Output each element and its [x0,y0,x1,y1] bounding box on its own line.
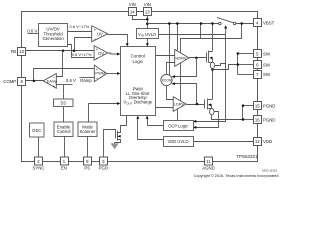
block VDD UVLO [164,137,194,147]
node arrow OV into control logic [117,53,120,56]
svg-text:AGND: AGND [202,166,214,171]
wire SW node to SW pins [213,65,238,70]
wire VIN rail [148,23,219,25]
wire control logic to LDRV input [156,107,174,109]
svg-text:VDD: VDD [263,139,272,144]
svg-text:0.6 V+17%: 0.6 V+17% [72,52,92,57]
pin 8 PS [84,157,92,171]
wire PGND stub pin 15 [243,105,254,107]
pin 6 SW [254,61,271,69]
transistor low side FET [205,99,213,110]
pin 9 COMP [3,78,25,86]
node arrow UV into control logic [126,43,129,46]
wire rail branch to high side FET drain [212,24,214,52]
node label TPS53321 [236,154,258,159]
pin 13 VIN [144,2,152,16]
svg-text:UV: UV [97,32,103,37]
wire SW stub pin 5 [238,53,254,55]
svg-text:+: + [94,27,97,32]
svg-text:11: 11 [206,159,211,164]
wire mode scanner branch [88,104,90,123]
wire HDRV feedback to XCON [175,58,197,77]
wire SW pin bridge [237,54,239,75]
svg-text:FB: FB [11,49,17,54]
pin 5 SW [254,50,271,58]
svg-text:12: 12 [255,139,260,144]
block VIN UVLO [137,29,159,39]
node arrow OCP into control logic bottom [146,116,149,119]
node label 0.6 V at EAmp [66,78,76,83]
svg-text:Ramp: Ramp [80,78,92,83]
wire SS to Enable Control [63,107,65,123]
op-amp EAmp error amplifier [43,74,57,90]
ground PGD FET source [111,143,119,150]
switch BST internal switch [217,18,236,25]
comparator OV [94,46,108,61]
svg-text:+: + [96,47,99,52]
wire VIN pin 14 drop [133,16,148,20]
wire VDD UVLO output to control logic [138,119,164,140]
node arrow BST switch control [224,25,227,28]
wire LDRV low rail to OCP [177,109,179,121]
svg-text:Generation: Generation [42,36,64,41]
wire SW stub pin 6 [238,64,254,66]
wire OCP Logic output to control logic [148,119,164,126]
wire LDRV output to low side gate [187,104,205,106]
node 0.6V reference input label [27,28,37,33]
node arrow VDD UVLO into control logic bottom [136,116,139,119]
svg-text:−: − [53,74,56,79]
node arrow PWM into control logic [117,72,120,75]
pin 10 FB [11,48,26,56]
svg-text:SW: SW [263,51,271,56]
node arrow into control logic left [117,102,120,105]
svg-text:0.6 V: 0.6 V [27,28,37,33]
svg-text:15: 15 [255,103,260,108]
driver HDRV [175,49,189,66]
node rail junction BST return [200,22,203,25]
wire PGD pin to gate [104,130,116,157]
comparator PWM [94,65,107,81]
node VIN junction a [146,18,149,21]
wire UV output to control logic [108,35,128,44]
wire VBST to HDRV high rail [181,24,242,53]
block OCP Logic [164,121,194,131]
circle XCON anti cross conduction [161,74,172,85]
wire rail branch to BST return line [200,24,202,39]
current sense low side [210,108,214,114]
svg-text:COMP: COMP [3,79,16,84]
svg-text:TPS53321: TPS53321 [236,154,258,159]
wire Enable Control to EN pin [64,137,66,158]
wire PGND stub pin 16 [243,119,254,121]
svg-text:OSC: OSC [32,128,41,133]
comparator UV [92,26,108,42]
svg-text:PGND: PGND [263,103,275,108]
node arrow HDRV feedback into XCON [172,75,175,78]
block Enable Control [54,122,73,137]
svg-text:VBST: VBST [263,21,275,26]
node PGND junction a [242,104,245,107]
svg-text:OCP Logic: OCP Logic [168,123,188,128]
svg-text:10: 10 [19,49,24,54]
wire VIN UVLO output to control logic [147,39,149,44]
pin 15 PGND [254,102,276,110]
svg-text:−: − [96,76,99,81]
svg-text:XCON: XCON [162,78,172,82]
node rail junction HDRV supply [176,22,179,25]
svg-text:14: 14 [130,9,135,14]
wire control logic to PGD pulldown drain [118,116,127,133]
wire XCON to LDRV input [167,86,174,100]
wire OSC to SYNC pin [38,137,40,158]
wire Ramp stub to PWM minus input [80,77,95,79]
svg-text:SW: SW [263,72,271,77]
node label UDG [262,169,277,173]
wire rail branch to HDRV supply [177,24,179,51]
pin 3 PGD [99,157,108,171]
svg-text:LDRV: LDRV [174,102,185,107]
node SW bridge junction b [237,63,240,66]
pin 1 EN [61,157,69,171]
svg-text:SW: SW [263,62,271,67]
block SS soft start [54,99,74,107]
wire VIN UVLO to BST switch control [159,35,226,122]
block UV/OV Threshold Generation [39,24,68,47]
node COMP junction [33,80,36,83]
wire SW stub pin 7 [238,74,254,76]
pin 12 VDD [254,138,273,146]
svg-text:Scanner: Scanner [79,129,96,134]
svg-text:0.6 V−17%: 0.6 V−17% [70,24,90,29]
node arrow VIN UVLO into control logic [146,43,149,46]
svg-text:VDD UVLO: VDD UVLO [168,139,189,144]
wire low side sense tap to OCP [196,112,219,128]
wire 0.6V-17% threshold to UV plus input [68,31,92,33]
svg-text:SYNC: SYNC [33,166,45,171]
pin 14 VIN [129,2,137,16]
wire XCON to HDRV low input [167,63,175,75]
wire EAmp plus input 0.6V stub [57,84,73,86]
svg-text:16: 16 [255,117,260,122]
wire SS and Mode Scanner to control logic [89,103,118,105]
wire FB to EAmp inverting input [57,51,63,77]
svg-text:−: − [94,37,97,42]
svg-text:PS: PS [84,166,90,171]
svg-text:VOUT Discharge: VOUT Discharge [123,100,152,106]
node FB junction to UV comparator [73,50,76,53]
wire PWM comparator output to control logic [107,73,118,75]
node label Ramp [80,78,92,83]
svg-text:EN: EN [61,166,67,171]
wire switch to VBST pin [236,23,254,25]
pin 2 SYNC [33,157,45,171]
node VBST junction [240,22,243,25]
transistor high side FET [207,51,213,63]
node SW bridge junction a [237,52,240,55]
svg-text:−: − [96,55,99,60]
svg-text:UDG-11201: UDG-11201 [262,169,277,173]
node SW junction [211,68,214,71]
svg-text:OV: OV [98,51,104,56]
wire OV output to control logic [108,53,118,54]
svg-text:Control: Control [57,129,71,134]
wire HDRV low rail to LDRV high rail [180,63,182,101]
block Mode Scanner [78,122,97,137]
transistor PGD open drain FET [115,131,121,143]
wire rail branch to XCON [169,24,171,76]
svg-text:VIN UVLO: VIN UVLO [138,32,156,38]
node rail junction drain [211,22,214,25]
svg-text:VIN: VIN [129,2,136,7]
wire FB to UV comparator minus input [75,38,92,51]
pin 11 AGND [202,157,214,171]
node FB junction to error amp [62,50,65,53]
wire Mode Scanner to PS pin [87,137,89,158]
pin 16 PGND [254,116,276,124]
node LDRV output junction [196,103,199,106]
wire EAmp output to COMP pin [26,80,44,82]
svg-text:Logic: Logic [132,59,143,64]
wire LDRV feedback to XCON [175,84,197,105]
block Control Logic [121,47,156,116]
current sense high side [210,62,214,68]
node PGND junction b [242,118,245,121]
node arrow LDRV feedback into XCON [172,82,175,85]
node arrow OCP sense into OCP Logic [193,120,196,123]
node VIN junction b [146,23,149,26]
wire SW node vertical [212,69,214,100]
svg-text:HDRV: HDRV [176,56,187,61]
pin 7 SW [254,71,271,79]
wire reference node to SS block [63,85,65,100]
node arrow low side sense into OCP Logic [193,126,196,129]
wire COMP node to PWM plus input [34,69,95,81]
node label copyright [194,174,279,178]
wire high side sense tap to OCP line [215,64,226,66]
svg-text:PGD: PGD [99,166,108,171]
block OSC oscillator [30,123,45,137]
node rail junction XCON branch [168,22,171,25]
wire HDRV output to high side gate [189,57,207,59]
node label 0.6 V -17% [70,24,90,29]
node HDRV output junction [195,57,198,60]
svg-text:Copyright © 2016, Texas Instru: Copyright © 2016, Texas Instruments Inco… [194,174,279,178]
pin 4 VBST [254,19,275,27]
svg-text:0.6 V: 0.6 V [66,78,76,83]
svg-text:VIN: VIN [144,2,151,7]
node label 0.6 V +17% [72,52,92,57]
wire VDD UVLO to VDD pin [194,141,254,143]
wire PGND bridge [242,106,244,120]
wire 0.6V+17% threshold to OV minus input [68,45,95,58]
wire FB net [26,50,95,52]
svg-text:+: + [96,67,99,72]
svg-text:13: 13 [145,9,150,14]
svg-text:+: + [53,84,56,89]
wire VIN pin 13 to VIN UVLO [147,16,149,29]
driver LDRV [173,97,186,112]
svg-text:SS: SS [60,101,66,106]
chip boundary TPS53321 [22,12,258,162]
wire low side source to PGND pins [212,115,243,120]
wire 0.6V to threshold box [28,33,39,35]
wire control logic to HDRV input [156,55,175,57]
svg-text:PGND: PGND [263,117,275,122]
